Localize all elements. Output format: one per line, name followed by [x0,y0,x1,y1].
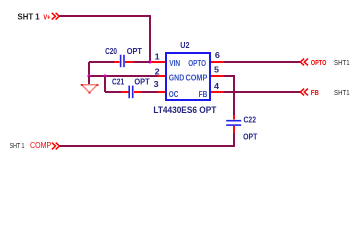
wire FB net [224,91,300,93]
svg-text:V+: V+ [43,12,50,21]
offpage connector chevron OPTO [300,59,308,66]
offpage connector chevron COMP [52,143,60,150]
wire C21 drop [104,76,106,92]
pin 2 stub GND [158,75,165,77]
svg-text:4: 4 [214,81,219,91]
capacitor C22 [226,115,258,142]
node junction V+/VIN [148,60,151,63]
wire ground stub [88,76,90,85]
svg-text:6: 6 [215,50,220,60]
svg-text:SHT1: SHT1 [334,58,350,67]
wire V+ rail top [59,16,150,62]
svg-text:SHT 1: SHT 1 [18,12,41,21]
svg-text:C20: C20 [105,46,117,56]
svg-text:C21: C21 [112,76,124,86]
svg-text:3: 3 [154,79,159,89]
node OPTO sheet label [311,58,350,67]
op-amp U2 body LT4430 [166,40,210,100]
wire OPTO net [224,61,300,63]
svg-text:COMP: COMP [30,141,51,150]
svg-text:OC: OC [169,90,179,99]
ground symbol [81,84,99,94]
pin 5 stub COMP [211,75,225,77]
svg-text:2: 2 [155,67,160,77]
svg-text:SHT1: SHT1 [334,88,350,97]
node COMP sheet label (bottom-left) [10,141,52,150]
pin 3 stub OC [158,91,165,93]
offpage connector chevron FB [300,89,308,96]
svg-text:LT4430ES6 OPT: LT4430ES6 OPT [153,105,216,115]
svg-text:OPTO: OPTO [311,60,327,67]
svg-text:FB: FB [199,90,208,99]
svg-text:5: 5 [214,65,219,75]
svg-text:C22: C22 [244,115,257,125]
svg-text:COMP: COMP [186,74,208,83]
svg-text:GND: GND [169,74,185,83]
pin 1 stub VIN [151,61,165,63]
node V+ sheet label (top-left) [18,12,51,21]
capacitor C21 [112,76,150,98]
node FB sheet label [311,88,350,97]
pin 4 stub FB [211,91,225,93]
wire COMP net bottom run [60,133,235,146]
pin 6 stub OPTO [211,61,225,63]
svg-text:OPT: OPT [243,132,258,142]
node junction C21 branch [103,74,106,77]
svg-text:OPT: OPT [134,76,150,86]
svg-text:OPT: OPT [127,46,143,56]
capacitor C20 [105,46,143,67]
wire GND row [89,75,158,77]
svg-text:VIN: VIN [169,59,180,68]
svg-text:U2: U2 [180,40,189,50]
node junction gnd-left [87,74,90,77]
wire C20 left drop [88,62,90,76]
svg-text:SHT 1: SHT 1 [10,141,25,150]
svg-text:1: 1 [155,51,160,61]
wire C20 row [89,61,150,63]
svg-text:FB: FB [311,90,319,97]
wire COMP net down [224,76,234,115]
wire C21 row [105,91,158,93]
offpage connector chevron V+ [52,13,60,20]
svg-text:OPTO: OPTO [188,59,206,68]
